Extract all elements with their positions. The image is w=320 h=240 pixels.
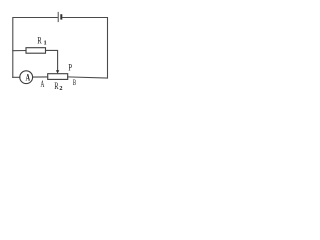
svg-text:P: P <box>68 63 72 74</box>
svg-text:2: 2 <box>59 85 62 92</box>
svg-text:R: R <box>54 81 58 91</box>
svg-text:R: R <box>37 37 42 47</box>
svg-text:A: A <box>26 72 30 83</box>
svg-text:A: A <box>41 79 45 89</box>
svg-text:1: 1 <box>44 39 47 46</box>
svg-text:B: B <box>73 77 76 87</box>
